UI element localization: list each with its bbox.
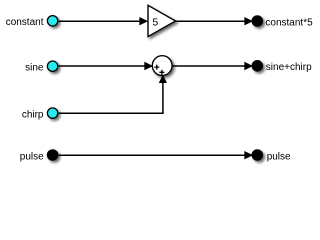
svg-text:sine: sine bbox=[25, 63, 44, 74]
sum block (circle) bbox=[152, 56, 172, 76]
input port pulse (black) bbox=[47, 150, 57, 160]
wire sum to out2 bbox=[172, 65, 246, 67]
svg-text:pulse: pulse bbox=[20, 151, 44, 162]
output port sine+chirp (black) bbox=[252, 61, 262, 71]
wire gain to out1 bbox=[176, 20, 246, 22]
wire sine to sum bbox=[59, 65, 146, 67]
input port constant (cyan) bbox=[47, 16, 57, 26]
svg-text:constant: constant bbox=[6, 17, 44, 28]
svg-text:pulse: pulse bbox=[267, 151, 291, 162]
gain block U1 (triangle, value 5) bbox=[148, 5, 176, 36]
svg-text:chirp: chirp bbox=[22, 109, 44, 120]
arrowhead into sum (left) bbox=[145, 63, 152, 70]
svg-text:sine+chirp: sine+chirp bbox=[266, 62, 312, 73]
input port sine (cyan) bbox=[47, 61, 57, 71]
arrowhead into out1 bbox=[245, 18, 252, 25]
output port constant*5 (black) bbox=[252, 16, 262, 26]
svg-text:5: 5 bbox=[152, 17, 158, 29]
wire pulse bbox=[59, 154, 247, 156]
wire constant to gain bbox=[59, 20, 141, 22]
plus sign (left input) bbox=[154, 65, 159, 70]
plus sign (bottom input) bbox=[159, 70, 164, 75]
wire chirp horizontal bbox=[59, 112, 164, 114]
output port pulse (black) bbox=[252, 150, 262, 160]
arrowhead into gain bbox=[140, 18, 147, 25]
wire chirp vertical up to sum bbox=[162, 82, 164, 114]
arrowhead into out2 bbox=[245, 63, 252, 70]
arrowhead into out3 bbox=[245, 152, 252, 159]
arrowhead into sum (bottom) bbox=[160, 76, 167, 83]
svg-text:constant*5: constant*5 bbox=[265, 17, 313, 28]
input port chirp (cyan) bbox=[47, 108, 57, 118]
